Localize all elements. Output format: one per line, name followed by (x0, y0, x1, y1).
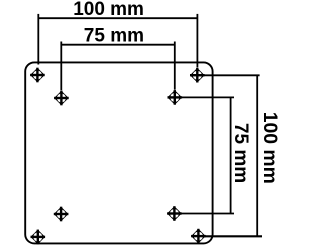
hole outer top-right (190, 68, 205, 83)
hole outer top-left (30, 68, 45, 83)
extension line 75mm right bottom (174, 213, 234, 215)
svg-text:75 mm: 75 mm (84, 25, 144, 46)
dimension line 100mm top (38, 17, 197, 19)
extension line 75mm top-right (174, 42, 176, 90)
extension line 100mm top-left (37, 14, 39, 65)
extension line 100mm right top (197, 74, 259, 76)
extension line 100mm top-right (196, 14, 198, 68)
plate outline (25, 62, 212, 243)
hole inner top-right (168, 90, 183, 105)
dimension line 100mm right vertical (256, 75, 258, 236)
svg-text:100 mm: 100 mm (259, 112, 281, 184)
extension line 75mm top-left (60, 42, 62, 91)
extension line 75mm right top (175, 96, 234, 98)
hole inner bottom-left (54, 207, 69, 222)
hole inner top-left (54, 91, 69, 106)
hole outer bottom-left (31, 230, 46, 245)
svg-text:75 mm: 75 mm (230, 123, 251, 183)
dimension line 75mm right vertical (230, 97, 232, 213)
hole outer bottom-right (191, 229, 206, 244)
hole inner bottom-right (167, 206, 182, 221)
dimension line 75mm top (61, 44, 175, 46)
extension line 100mm right bottom (198, 235, 262, 237)
svg-text:100 mm: 100 mm (73, 0, 144, 20)
